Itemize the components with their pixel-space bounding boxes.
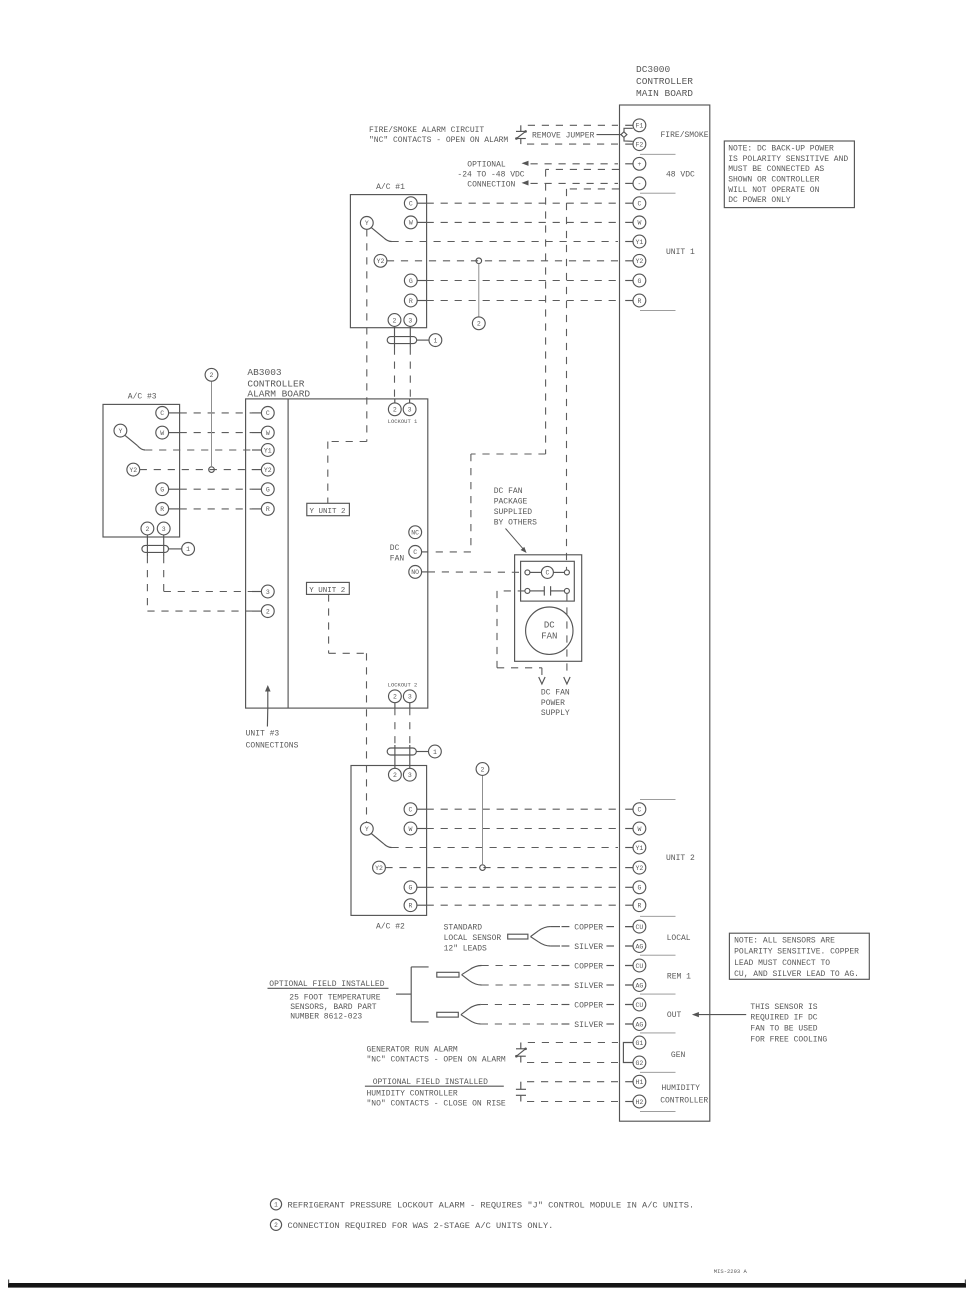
svg-text:MUST BE CONNECTED AS: MUST BE CONNECTED AS bbox=[728, 165, 824, 174]
A/C3 terminal 2 bbox=[141, 522, 154, 535]
svg-text:2: 2 bbox=[274, 1222, 278, 1229]
svg-text:CONTROLLER: CONTROLLER bbox=[660, 1096, 708, 1105]
svg-text:LEAD MUST CONNECT TO: LEAD MUST CONNECT TO bbox=[734, 959, 830, 968]
svg-text:3: 3 bbox=[408, 317, 412, 324]
bottom border bar bbox=[8, 1283, 966, 1288]
svg-text:25 FOOT TEMPERATURE: 25 FOOT TEMPERATURE bbox=[289, 993, 380, 1002]
svg-text:HUMIDITY: HUMIDITY bbox=[662, 1084, 701, 1093]
svg-text:CONTROLLER: CONTROLLER bbox=[636, 76, 693, 87]
A/C2 terminal Y2 bbox=[373, 861, 386, 874]
svg-text:48 VDC: 48 VDC bbox=[666, 171, 695, 180]
svg-text:DC3000: DC3000 bbox=[636, 64, 671, 75]
terminal G2 bbox=[633, 1056, 646, 1069]
svg-text:Y1: Y1 bbox=[264, 447, 272, 454]
A/C3 terminal R bbox=[156, 503, 169, 516]
terminal H1 bbox=[625, 1081, 633, 1083]
svg-text:OPTIONAL: OPTIONAL bbox=[467, 160, 506, 169]
UNIT1 terminal W bbox=[625, 221, 633, 223]
wire Y1 unit2 bbox=[392, 847, 619, 849]
A/C3 terminal Y bbox=[114, 424, 127, 437]
A/C #2 box bbox=[351, 766, 427, 916]
terminal H2 bbox=[625, 1101, 633, 1103]
svg-text:LOCAL: LOCAL bbox=[667, 934, 691, 943]
AB3003 controller alarm board bbox=[246, 399, 428, 708]
UNIT1 terminal Y2 bbox=[625, 260, 633, 262]
separator bbox=[640, 309, 676, 311]
wire Y2 unit2 bbox=[385, 867, 618, 869]
A/C2 terminal Y bbox=[360, 822, 373, 835]
svg-text:FOR FREE COOLING: FOR FREE COOLING bbox=[750, 1036, 827, 1045]
svg-text:G: G bbox=[266, 487, 270, 494]
A/C #3 box bbox=[103, 404, 180, 537]
svg-text:UNIT 2: UNIT 2 bbox=[666, 854, 695, 863]
wire C unit2 bbox=[427, 808, 618, 810]
svg-text:FIRE/SMOKE ALARM CIRCUIT: FIRE/SMOKE ALARM CIRCUIT bbox=[369, 126, 484, 135]
svg-text:DC POWER ONLY: DC POWER ONLY bbox=[728, 196, 791, 205]
svg-text:2: 2 bbox=[393, 317, 397, 324]
svg-text:POWER: POWER bbox=[541, 699, 565, 708]
A/C2 Y switch arm bbox=[371, 834, 384, 844]
svg-text:GEN: GEN bbox=[671, 1051, 686, 1060]
svg-text:"NC" CONTACTS - OPEN ON ALARM: "NC" CONTACTS - OPEN ON ALARM bbox=[367, 1056, 506, 1065]
wire lockout2-3 bbox=[409, 708, 411, 745]
svg-text:G: G bbox=[409, 278, 413, 285]
svg-text:3: 3 bbox=[162, 526, 166, 533]
wire G1 bbox=[528, 1042, 618, 1044]
svg-text:Y2: Y2 bbox=[375, 865, 383, 872]
unit #3 connections arrow bbox=[266, 708, 268, 727]
svg-text:NO: NO bbox=[411, 569, 419, 576]
svg-text:ALARM BOARD: ALARM BOARD bbox=[247, 388, 310, 399]
sensor terminal CU bbox=[625, 965, 633, 967]
svg-text:C: C bbox=[160, 410, 164, 417]
A/C3 terminal C bbox=[156, 407, 169, 420]
rem1 sensor bbox=[437, 972, 459, 977]
note circle 1 bbox=[182, 543, 195, 556]
wire lockout1-2 bbox=[394, 348, 396, 403]
svg-text:CU: CU bbox=[635, 924, 643, 931]
svg-text:W: W bbox=[266, 430, 270, 437]
UNIT1 terminal G bbox=[625, 280, 633, 282]
node 2 on Y2 wire A/C3 bbox=[209, 467, 215, 473]
svg-text:FAN TO BE USED: FAN TO BE USED bbox=[750, 1025, 817, 1034]
svg-text:2: 2 bbox=[393, 694, 397, 701]
svg-text:AG: AG bbox=[635, 1021, 643, 1028]
svg-text:CONNECTIONS: CONNECTIONS bbox=[246, 742, 299, 751]
separator bbox=[640, 153, 676, 155]
AB3003 terminal W bbox=[261, 426, 274, 439]
wire C unit1 bbox=[427, 202, 618, 204]
wire silver rem1 bbox=[562, 984, 570, 986]
terminal + (48VDC) bbox=[625, 163, 633, 165]
svg-text:SILVER: SILVER bbox=[574, 1021, 603, 1030]
svg-text:C: C bbox=[409, 807, 413, 814]
svg-text:CONNECTION: CONNECTION bbox=[467, 180, 515, 189]
AB3003 terminal C bbox=[261, 407, 274, 420]
AB3003 terminal 2 bbox=[261, 605, 274, 618]
svg-text:NOTE: ALL SENSORS ARE: NOTE: ALL SENSORS ARE bbox=[734, 936, 835, 945]
separator bbox=[640, 1071, 676, 1073]
sensor terminal CU bbox=[625, 1004, 633, 1006]
wire -48 down-route bbox=[567, 188, 620, 190]
svg-text:C: C bbox=[413, 549, 417, 556]
separator bbox=[640, 1032, 676, 1034]
A/C3 Y switch arm bbox=[125, 435, 138, 445]
svg-text:12" LEADS: 12" LEADS bbox=[444, 945, 487, 954]
DC3000 controller main board bbox=[620, 105, 710, 1121]
A/C2 terminal W bbox=[404, 822, 417, 835]
svg-text:NC: NC bbox=[411, 530, 419, 537]
jumper diamond node bbox=[621, 132, 627, 138]
wire copper rem1 bbox=[562, 965, 570, 967]
svg-text:SENSORS, BARD PART: SENSORS, BARD PART bbox=[290, 1003, 377, 1012]
power supply arrows bbox=[539, 677, 545, 684]
svg-text:Y1: Y1 bbox=[635, 845, 643, 852]
svg-text:OUT: OUT bbox=[667, 1011, 682, 1020]
svg-text:CONNECTION REQUIRED FOR WAS 2-: CONNECTION REQUIRED FOR WAS 2-STAGE A/C … bbox=[288, 1221, 554, 1231]
A/C1 terminal R bbox=[404, 294, 417, 307]
svg-text:C: C bbox=[409, 201, 413, 208]
A/C1 terminal 3 bbox=[404, 314, 417, 327]
svg-text:G: G bbox=[637, 278, 641, 285]
UNIT2 terminal W bbox=[625, 828, 633, 830]
svg-text:LOCKOUT 1: LOCKOUT 1 bbox=[388, 418, 418, 425]
svg-text:W: W bbox=[637, 826, 641, 833]
svg-text:H2: H2 bbox=[635, 1099, 643, 1106]
svg-text:STANDARD: STANDARD bbox=[444, 924, 483, 933]
wire F2 bbox=[527, 143, 618, 145]
svg-text:F1: F1 bbox=[635, 123, 643, 130]
wire Y2 ab3003 bbox=[140, 469, 252, 471]
leader arrowhead 1 bbox=[522, 161, 529, 166]
svg-text:AG: AG bbox=[635, 943, 643, 950]
svg-text:G: G bbox=[637, 885, 641, 892]
wire - bbox=[531, 182, 619, 184]
wire W unit1 bbox=[427, 221, 618, 223]
svg-text:R: R bbox=[637, 903, 641, 910]
svg-text:-: - bbox=[637, 181, 641, 188]
wire copper out bbox=[562, 1004, 570, 1006]
svg-text:DC: DC bbox=[390, 544, 400, 553]
out sensor bbox=[437, 1012, 459, 1017]
wire A/C3-2 to board 2 bbox=[146, 556, 148, 611]
AB3003 terminal Y1 bbox=[261, 444, 274, 457]
svg-text:Y: Y bbox=[118, 428, 122, 435]
wire G ab3003 bbox=[180, 488, 252, 490]
svg-text:Y1: Y1 bbox=[635, 239, 643, 246]
wire Y to Y UNIT 2 bbox=[366, 229, 368, 441]
UNIT2 terminal R bbox=[625, 904, 633, 906]
svg-text:G: G bbox=[409, 885, 413, 892]
svg-text:2: 2 bbox=[481, 766, 485, 773]
svg-text:BY OTHERS: BY OTHERS bbox=[494, 518, 537, 527]
sensor terminal AG bbox=[625, 1023, 633, 1025]
footnote 1 bbox=[270, 1199, 281, 1210]
svg-text:CU, AND SILVER LEAD TO AG.: CU, AND SILVER LEAD TO AG. bbox=[734, 970, 859, 979]
svg-text:C: C bbox=[545, 570, 549, 577]
note circle 1 bbox=[429, 334, 442, 347]
wire W ab3003 bbox=[180, 432, 252, 434]
svg-text:REQUIRED IF DC: REQUIRED IF DC bbox=[750, 1014, 817, 1023]
svg-text:THIS SENSOR IS: THIS SENSOR IS bbox=[750, 1003, 817, 1012]
sensor terminal AG bbox=[625, 984, 633, 986]
svg-text:C: C bbox=[637, 201, 641, 208]
separator bbox=[640, 954, 676, 956]
svg-text:OPTIONAL FIELD INSTALLED: OPTIONAL FIELD INSTALLED bbox=[373, 1078, 488, 1087]
svg-text:3: 3 bbox=[408, 772, 412, 779]
svg-text:2: 2 bbox=[145, 526, 149, 533]
A/C2 terminal G bbox=[404, 881, 417, 894]
svg-text:Y: Y bbox=[365, 220, 369, 227]
svg-text:OPTIONAL FIELD INSTALLED: OPTIONAL FIELD INSTALLED bbox=[269, 980, 384, 989]
wire R ab3003 bbox=[180, 508, 252, 510]
relay box bbox=[521, 561, 575, 601]
svg-text:2: 2 bbox=[393, 407, 397, 414]
svg-text:2: 2 bbox=[393, 772, 397, 779]
svg-text:REFRIGERANT PRESSURE LOCKOUT A: REFRIGERANT PRESSURE LOCKOUT ALARM - REQ… bbox=[288, 1201, 695, 1211]
jumper wire F1-F2 bbox=[624, 128, 633, 131]
UNIT1 terminal C bbox=[625, 202, 633, 204]
svg-text:R: R bbox=[409, 298, 413, 305]
svg-text:Y2: Y2 bbox=[129, 467, 137, 474]
svg-text:2: 2 bbox=[477, 321, 481, 328]
svg-text:POLARITY SENSITIVE. COPPER: POLARITY SENSITIVE. COPPER bbox=[734, 948, 859, 957]
dc fan package box bbox=[515, 555, 582, 662]
svg-text:3: 3 bbox=[408, 694, 412, 701]
NC contact symbol (gen) bbox=[520, 1043, 522, 1049]
svg-text:COPPER: COPPER bbox=[574, 1001, 603, 1010]
relay contact row bbox=[525, 588, 530, 593]
lockout jumper capsule A/C1 bbox=[394, 326, 396, 347]
NO contact symbol (humidity) bbox=[520, 1082, 522, 1089]
svg-text:DC: DC bbox=[544, 621, 555, 631]
svg-text:AB3003: AB3003 bbox=[247, 367, 282, 378]
UNIT2 terminal C bbox=[625, 808, 633, 810]
svg-text:W: W bbox=[409, 220, 413, 227]
wire +48 down-route bbox=[546, 168, 619, 170]
note box: all sensors polarity bbox=[729, 933, 869, 979]
svg-text:COPPER: COPPER bbox=[574, 962, 603, 971]
svg-text:W: W bbox=[409, 826, 413, 833]
A/C2 terminal R bbox=[404, 899, 417, 912]
svg-text:DC FAN: DC FAN bbox=[541, 688, 570, 697]
note circle 1 bbox=[429, 745, 442, 758]
terminal G1 bbox=[633, 1036, 646, 1049]
svg-text:AG: AG bbox=[635, 982, 643, 989]
svg-text:SILVER: SILVER bbox=[574, 943, 603, 952]
wire NO to relay coil bbox=[428, 571, 525, 573]
A/C1 terminal 2 bbox=[388, 314, 401, 327]
svg-text:REMOVE JUMPER: REMOVE JUMPER bbox=[532, 131, 595, 140]
wire Y-unit2 lower route bbox=[328, 594, 330, 653]
wire silver out bbox=[562, 1023, 570, 1025]
wire copper local bbox=[562, 926, 570, 928]
AB3003 terminal G bbox=[261, 483, 274, 496]
separator bbox=[640, 1110, 676, 1112]
wire contact to supply right bbox=[566, 593, 568, 676]
lockout jumper capsule A/C3 bbox=[146, 535, 148, 556]
svg-text:W: W bbox=[637, 220, 641, 227]
svg-text:A/C #3: A/C #3 bbox=[128, 393, 157, 402]
LOCKOUT 1 terminals bbox=[388, 403, 401, 416]
A/C1 terminal C bbox=[404, 197, 417, 210]
svg-text:3: 3 bbox=[266, 589, 270, 596]
UNIT1 terminal R bbox=[625, 300, 633, 302]
A/C1 terminal W bbox=[404, 216, 417, 229]
wire Y1 ab3003 bbox=[145, 449, 252, 451]
svg-text:2: 2 bbox=[266, 608, 270, 615]
DC FAN motor circle bbox=[526, 607, 573, 654]
wire lockout1-3 bbox=[409, 348, 411, 403]
AB3003 terminal Y2 bbox=[261, 463, 274, 476]
separator bbox=[640, 993, 676, 995]
svg-text:G: G bbox=[160, 487, 164, 494]
terminal F1 bbox=[625, 124, 633, 126]
NC contact symbol (fire/smoke) bbox=[520, 125, 522, 131]
wire W unit2 bbox=[427, 828, 618, 830]
svg-text:FAN: FAN bbox=[541, 632, 557, 642]
wire A/C3-3 to board 3 bbox=[163, 556, 165, 592]
svg-text:PACKAGE: PACKAGE bbox=[494, 498, 528, 507]
svg-text:C: C bbox=[637, 807, 641, 814]
wire H2 bbox=[527, 1101, 618, 1103]
wire Y1 unit1 bbox=[392, 241, 619, 243]
svg-text:MIS-2293 A: MIS-2293 A bbox=[714, 1268, 748, 1275]
svg-text:Y UNIT 2: Y UNIT 2 bbox=[309, 587, 345, 595]
UNIT2 terminal Y1 bbox=[625, 847, 633, 849]
svg-text:GENERATOR RUN ALARM: GENERATOR RUN ALARM bbox=[367, 1045, 458, 1054]
svg-text:NUMBER 8612-023: NUMBER 8612-023 bbox=[290, 1013, 362, 1022]
A/C1 terminal Y2 bbox=[374, 254, 387, 267]
wire C ab3003 bbox=[180, 412, 252, 414]
note box: DC back-up power bbox=[724, 141, 854, 208]
A/C2 terminal 3 bbox=[403, 768, 416, 781]
sensor terminal CU bbox=[625, 926, 633, 928]
svg-text:DC FAN: DC FAN bbox=[494, 487, 523, 496]
leader arrowhead 2 bbox=[522, 180, 529, 185]
svg-text:1: 1 bbox=[274, 1202, 278, 1209]
svg-text:NOTE: DC BACK-UP POWER: NOTE: DC BACK-UP POWER bbox=[728, 145, 834, 154]
svg-text:COPPER: COPPER bbox=[574, 923, 603, 932]
svg-text:Y2: Y2 bbox=[635, 258, 643, 265]
AB3003 terminal R bbox=[261, 503, 274, 516]
UNIT2 terminal G bbox=[625, 886, 633, 888]
A/C2 terminal C bbox=[404, 803, 417, 816]
wire Y2 unit1 bbox=[387, 260, 618, 262]
relay coil row bbox=[525, 570, 530, 575]
A/C3 terminal Y2 bbox=[127, 463, 140, 476]
A/C3 terminal 3 bbox=[157, 522, 170, 535]
wire lockout2-2 bbox=[394, 708, 396, 745]
terminal - (48VDC) bbox=[625, 182, 633, 184]
svg-text:SUPPLIED: SUPPLIED bbox=[494, 508, 533, 517]
svg-text:Y UNIT 2: Y UNIT 2 bbox=[310, 508, 346, 516]
svg-text:SHOWN OR CONTROLLER: SHOWN OR CONTROLLER bbox=[728, 176, 819, 185]
svg-text:1: 1 bbox=[186, 546, 190, 553]
UNIT1 terminal Y1 bbox=[625, 241, 633, 243]
Y UNIT 2 label box 1 bbox=[307, 503, 350, 515]
svg-text:WILL NOT OPERATE ON: WILL NOT OPERATE ON bbox=[728, 186, 819, 195]
svg-text:"NO" CONTACTS - CLOSE ON RISE: "NO" CONTACTS - CLOSE ON RISE bbox=[367, 1100, 506, 1109]
A/C1 terminal G bbox=[404, 274, 417, 287]
svg-text:R: R bbox=[160, 506, 164, 513]
A/C #1 box bbox=[350, 195, 426, 328]
svg-text:"NC" CONTACTS - OPEN ON ALARM: "NC" CONTACTS - OPEN ON ALARM bbox=[369, 136, 508, 145]
pointer arrow to package bbox=[506, 529, 524, 550]
svg-text:LOCKOUT 2: LOCKOUT 2 bbox=[388, 682, 418, 689]
leader line to jumper diamond bbox=[597, 134, 621, 136]
svg-text:LOCAL SENSOR: LOCAL SENSOR bbox=[444, 934, 502, 943]
lockout jumper capsule A/C2 bbox=[394, 745, 396, 768]
AB3003 terminal 3 bbox=[261, 585, 274, 598]
svg-text:CU: CU bbox=[635, 963, 643, 970]
svg-text:Y2: Y2 bbox=[264, 467, 272, 474]
svg-text:R: R bbox=[266, 506, 270, 513]
svg-text:HUMIDITY CONTROLLER: HUMIDITY CONTROLLER bbox=[367, 1090, 458, 1099]
terminal F2 bbox=[625, 143, 633, 145]
svg-text:F2: F2 bbox=[635, 141, 643, 148]
wire G unit1 bbox=[427, 280, 618, 282]
svg-text:G1: G1 bbox=[635, 1040, 643, 1047]
wire F1 bbox=[528, 124, 618, 126]
separator bbox=[640, 798, 676, 800]
wire G unit2 bbox=[427, 886, 618, 888]
svg-text:W: W bbox=[160, 430, 164, 437]
svg-text:UNIT #3: UNIT #3 bbox=[246, 730, 280, 739]
wire silver local bbox=[562, 945, 570, 947]
svg-text:+: + bbox=[637, 161, 641, 168]
svg-text:1: 1 bbox=[433, 749, 437, 756]
A/C1 terminal Y bbox=[360, 217, 373, 230]
sensor terminal AG bbox=[625, 945, 633, 947]
svg-text:R: R bbox=[637, 298, 641, 305]
A/C3 terminal W bbox=[156, 426, 169, 439]
svg-text:A/C #2: A/C #2 bbox=[376, 922, 405, 931]
separator bbox=[640, 192, 676, 194]
wire contact to supply left bbox=[497, 590, 525, 592]
svg-text:UNIT 1: UNIT 1 bbox=[666, 248, 695, 257]
svg-text:R: R bbox=[409, 903, 413, 910]
svg-text:SUPPLY: SUPPLY bbox=[541, 709, 570, 718]
wire + bbox=[531, 163, 619, 165]
leader arrow to OUT bbox=[698, 1014, 747, 1016]
svg-text:IS POLARITY SENSITIVE AND: IS POLARITY SENSITIVE AND bbox=[728, 155, 848, 164]
node 2 on Y2 wire bbox=[476, 258, 482, 264]
svg-text:Y: Y bbox=[365, 826, 369, 833]
bracket to sensors bbox=[396, 993, 411, 995]
Y UNIT 2 label box 2 bbox=[307, 582, 350, 594]
separator bbox=[640, 915, 676, 917]
svg-text:1: 1 bbox=[433, 337, 437, 344]
node 2 on Y2 wire unit2 bbox=[480, 865, 486, 871]
svg-text:FIRE/SMOKE: FIRE/SMOKE bbox=[661, 131, 709, 140]
footnote 2 bbox=[270, 1219, 281, 1230]
svg-text:CU: CU bbox=[635, 1002, 643, 1009]
svg-text:2: 2 bbox=[210, 372, 214, 379]
svg-text:3: 3 bbox=[408, 407, 412, 414]
svg-text:REM 1: REM 1 bbox=[667, 973, 691, 982]
UNIT2 terminal Y2 bbox=[625, 867, 633, 869]
svg-text:MAIN BOARD: MAIN BOARD bbox=[636, 88, 693, 99]
A/C3 terminal G bbox=[156, 483, 169, 496]
svg-text:FAN: FAN bbox=[390, 555, 405, 564]
wire R unit2 bbox=[427, 904, 618, 906]
svg-text:Y2: Y2 bbox=[377, 258, 385, 265]
svg-text:G2: G2 bbox=[635, 1060, 643, 1067]
wire R unit1 bbox=[427, 300, 618, 302]
A/C2 terminal 2 bbox=[389, 768, 402, 781]
svg-text:SILVER: SILVER bbox=[574, 982, 603, 991]
